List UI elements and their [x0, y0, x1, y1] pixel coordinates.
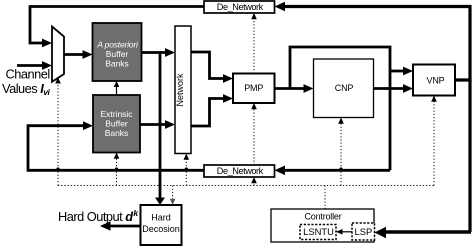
svg-text:LSNTU: LSNTU	[303, 226, 334, 237]
svg-text:PMP: PMP	[244, 83, 263, 93]
svg-text:Hard Output dk: Hard Output dk	[58, 208, 139, 224]
svg-text:Buffer: Buffer	[106, 49, 129, 59]
svg-text:CNP: CNP	[335, 83, 354, 93]
svg-text:Network: Network	[175, 73, 185, 107]
svg-text:De_Network: De_Network	[217, 2, 264, 12]
svg-text:VNP: VNP	[427, 75, 445, 85]
svg-text:A posteriori: A posteriori	[96, 40, 139, 50]
svg-text:Channel: Channel	[6, 67, 50, 82]
svg-text:Extrinsic: Extrinsic	[100, 109, 133, 119]
svg-text:Hard: Hard	[151, 213, 171, 223]
svg-text:De_Network: De_Network	[217, 166, 264, 176]
svg-text:Decosion: Decosion	[142, 224, 180, 234]
svg-text:Banks: Banks	[105, 59, 129, 69]
svg-text:Buffer: Buffer	[105, 119, 128, 129]
svg-text:Controller: Controller	[304, 211, 341, 221]
svg-text:LSP: LSP	[355, 226, 373, 237]
svg-text:Banks: Banks	[105, 128, 129, 138]
svg-text:Values Ivi: Values Ivi	[2, 81, 51, 97]
